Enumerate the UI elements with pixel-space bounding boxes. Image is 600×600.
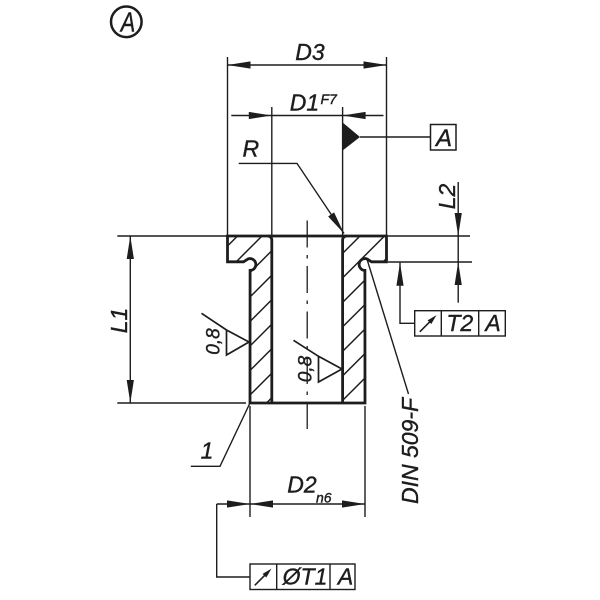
svg-text:L1: L1 [106,308,132,334]
svg-text:T2: T2 [446,310,473,336]
svg-text:0,8: 0,8 [295,355,316,382]
svg-text:0,8: 0,8 [203,328,224,355]
svg-text:D3: D3 [295,39,325,65]
svg-text:DIN 509-F: DIN 509-F [397,396,423,504]
svg-text:R: R [242,136,259,162]
svg-text:1: 1 [201,438,214,464]
svg-text:L2: L2 [434,184,460,210]
svg-text:A: A [483,310,500,336]
svg-text:F7: F7 [321,91,339,107]
svg-text:n6: n6 [316,490,332,506]
svg-text:A: A [434,125,452,152]
svg-text:A: A [336,564,353,590]
svg-text:D1: D1 [290,90,319,116]
svg-text:ØT1: ØT1 [282,564,328,590]
svg-text:A: A [119,6,135,37]
svg-text:D2: D2 [287,472,317,498]
